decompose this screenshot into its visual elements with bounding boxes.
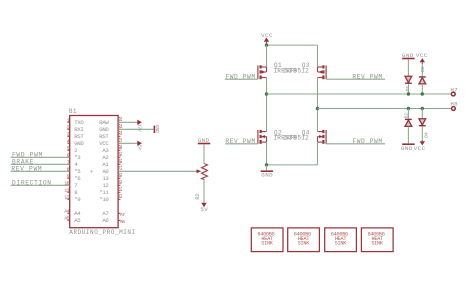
svg-text:REV_PWM: REV_PWM [225,138,255,145]
diode D3 [419,76,426,84]
supply 12V arrow [137,120,142,125]
heatsink HS4 6400BG [361,228,393,252]
svg-text:*3: *3 [74,154,81,161]
svg-text:A7: A7 [120,212,125,218]
wire pin24 RAW to 12V [118,121,137,123]
junction D2-H8 [407,107,410,110]
node source-GND junction [265,163,268,166]
svg-text:GND: GND [154,125,160,133]
ground GND (below Q2) bar [261,170,273,172]
svg-text:VCC: VCC [414,145,426,152]
svg-text:*6: *6 [74,175,81,182]
svg-text:12: 12 [102,182,109,189]
svg-text:A2: A2 [102,154,109,161]
wire FWD_PWM to Q1 gate [225,78,258,80]
svg-text:A1: A1 [102,161,109,168]
svg-text:13: 13 [117,193,123,198]
wire VCC to D3 cathode [421,64,423,76]
svg-text:BRAKE: BRAKE [12,159,34,166]
svg-text:B1: B1 [69,108,77,115]
svg-text:11: 11 [64,188,69,194]
svg-text:14: 14 [117,186,123,191]
ground GND (top cluster) bar [402,58,414,60]
svg-text:17: 17 [117,165,123,170]
wire GND to D1 anode [407,59,409,76]
wire REV_PWM to Q2 gate [225,143,258,145]
IC right pin stubs [118,122,120,220]
IC right pin numbers [117,116,125,224]
svg-text:VCC: VCC [416,52,428,59]
svg-text:18: 18 [117,158,123,163]
wire D2 anode to GND [407,126,409,143]
pad H7 [451,92,455,96]
svg-text:VCC: VCC [99,140,109,147]
svg-text:SINK: SINK [335,241,348,247]
svg-text:RXI: RXI [74,126,83,133]
svg-text:*11: *11 [99,189,109,196]
svg-text:RST: RST [99,133,109,140]
wire pin23 GND to gnd symbol [118,128,154,130]
wire D1 cathode to H7 [407,84,409,94]
ground GND (pin23, rotated bar) [154,126,156,133]
wire Q2 source down [266,142,268,165]
svg-text:FWD_PWM: FWD_PWM [12,152,43,159]
svg-text:GND: GND [401,145,413,152]
heatsink HS2 6400BG [288,228,320,252]
diode D4 [419,119,426,127]
svg-text:Q3: Q3 [302,62,310,69]
svg-text:A3: A3 [102,147,109,154]
supply VCC (top) arrow [264,38,269,42]
wire Q4 gate to FWD_PWM [326,143,385,145]
svg-text:12: 12 [64,195,69,201]
wire output H7 horizontal [267,93,452,95]
svg-text:21: 21 [117,137,123,142]
wire net FWD_PWM to pin [11,156,70,158]
svg-text:FWD_PWM: FWD_PWM [225,73,255,80]
wire source bus horizontal [267,164,318,166]
potentiometer R2 zigzag [202,164,208,180]
svg-text:12V: 12V [137,124,143,132]
svg-text:Q4: Q4 [302,129,310,136]
IC left pin stubs [67,122,69,220]
svg-text:*5: *5 [74,168,81,175]
svg-text:REV_PWM: REV_PWM [352,73,382,80]
svg-text:16: 16 [117,172,123,177]
svg-text:23: 23 [117,123,123,128]
svg-text:R2: R2 [195,193,201,199]
wire output H8 horizontal [318,108,452,110]
svg-text:4: 4 [74,161,78,168]
diode D1 [405,76,412,84]
wire Q1 drain to Q2 drain (left leg) [266,78,268,132]
svg-text:A7: A7 [102,210,108,217]
svg-text:7: 7 [74,182,77,189]
supply 5V arrow (below R2) [201,203,206,208]
pad H8 [452,107,456,111]
svg-text:A4: A4 [74,210,81,217]
svg-text:5V: 5V [137,145,143,151]
wire GND to R2 top [203,144,205,163]
svg-text:GND: GND [74,140,84,147]
svg-text:A0: A0 [102,168,109,175]
svg-text:A5: A5 [74,217,81,224]
svg-text:15: 15 [117,179,123,184]
svg-text:22: 22 [117,130,123,135]
svg-text:A5: A5 [64,216,69,222]
svg-text:24: 24 [117,116,123,121]
IC right pin names [99,119,109,224]
svg-text:A6: A6 [102,217,109,224]
supply VCC (bottom cluster) arrow [421,140,423,141]
svg-text:VCC: VCC [261,32,273,39]
svg-text:SINK: SINK [261,241,274,247]
transistor Q4 (N-MOSFET) [318,130,327,144]
wire D3 anode to H7 [421,84,423,94]
wire rail to Q1 source [266,45,268,66]
svg-text:GND: GND [261,171,273,178]
svg-text:RAW: RAW [99,119,109,126]
svg-text:SINK: SINK [298,241,311,247]
svg-text:RST: RST [74,133,84,140]
transistor Q1 (IRF9530 P-MOSFET) [258,65,267,79]
wire net REV_PWM to pin [11,170,70,172]
svg-text:20: 20 [117,144,123,149]
svg-text:19: 19 [117,151,123,156]
transistor Q3 (P-MOSFET) [318,65,327,79]
svg-text:FWD_PWM: FWD_PWM [352,138,382,145]
ground GND above R2 bar [198,143,210,145]
svg-text:8: 8 [74,189,78,196]
svg-text:TXO: TXO [74,119,84,126]
wire Q4 source down [317,142,319,165]
svg-text:D4: D4 [424,132,430,138]
supply VCC (top cluster) arrow [420,58,425,62]
wire H8 to D4 anode [421,109,423,119]
IC left pin names [74,119,84,224]
IC U/B1 ARDUINO_PRO_MINI box [70,116,118,228]
wire Q3 gate to REV_PWM [326,78,385,80]
junction D1-H7 [407,92,410,95]
diode D2 [405,119,412,127]
wire H8 to D2 cathode [407,109,409,119]
svg-text:D3: D3 [420,66,426,72]
svg-text:A4: A4 [64,209,69,215]
svg-text:DIRECTION: DIRECTION [12,180,52,187]
wire junction to ground [266,165,268,170]
svg-text:2: 2 [74,147,78,154]
wire net DIRECTION to pin [11,184,70,186]
heatsink HS3 6400BG [325,228,357,252]
wire VCC rail horizontal [267,44,318,46]
wire Q3 drain to Q4 drain (right leg) [317,78,319,132]
svg-text:13: 13 [102,175,109,182]
svg-text:5V: 5V [200,206,208,213]
wire pin21 VCC to 5V [118,142,137,144]
wire pin17 A0 to R2 wiper [118,170,197,172]
svg-text:D2: D2 [403,113,409,119]
svg-text:SINK: SINK [371,241,384,247]
junction D4-H8 [421,107,424,110]
wire R2 bottom to 5V [203,180,205,203]
svg-text:ARDUINO_PRO_MINI: ARDUINO_PRO_MINI [69,229,135,236]
supply 5V arrow (pin21) [137,141,142,146]
junction VCC rail [265,43,268,46]
wire rail to Q3 source [317,45,319,66]
wire D4 cathode to VCC [421,126,423,140]
wire net BRAKE to pin [11,163,70,165]
svg-text:*10: *10 [99,196,109,203]
svg-text:A6: A6 [120,219,125,225]
svg-text:*9: *9 [74,196,81,203]
junction D3-H7 [421,92,424,95]
node left output junction [265,92,268,95]
svg-text:GND: GND [99,126,109,133]
transistor Q2 (IRF530 N-MOSFET) [258,130,267,144]
IC origin cross [90,170,93,173]
R2 wiper arrow [197,169,202,173]
ground GND (bottom cluster) bar [402,143,414,145]
node right output junction [316,107,319,110]
heatsink HS1 6400BG [251,228,283,252]
IC left pin numbers [64,118,69,222]
svg-text:REV_PWM: REV_PWM [11,166,42,173]
